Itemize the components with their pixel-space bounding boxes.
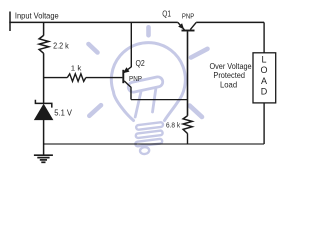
wire: 2.2k branch upper bbox=[43, 22, 45, 35]
label PNP (Q1) bbox=[182, 12, 194, 21]
label 6.8 k bbox=[166, 120, 180, 129]
wire: 1k to Q2 base bbox=[86, 77, 123, 79]
svg-text:6.8 k: 6.8 k bbox=[166, 120, 180, 129]
base tip bbox=[140, 147, 150, 155]
wire: 2.2k bottom to zener top bbox=[43, 53, 45, 103]
transistor Q2 (PNP) bbox=[123, 22, 131, 99]
label 5.1 V bbox=[54, 108, 72, 117]
label LOAD letters bbox=[260, 55, 267, 97]
svg-text:Over Voltage: Over Voltage bbox=[210, 62, 253, 71]
label 1 k bbox=[71, 64, 82, 73]
base bar 1 bbox=[136, 122, 163, 130]
transistor Q1 (PNP) bbox=[178, 22, 196, 115]
filament supports bbox=[135, 88, 156, 118]
ray bottom-left bbox=[89, 105, 101, 116]
base lead down bbox=[187, 31, 189, 115]
wire: 6.8k to bottom rail bbox=[187, 133, 189, 144]
svg-text:L: L bbox=[261, 55, 266, 65]
label Q2 bbox=[136, 58, 146, 68]
load box bbox=[253, 53, 276, 103]
label Q1 bbox=[162, 10, 171, 19]
label Input Voltage bbox=[15, 11, 59, 20]
collector lead bbox=[124, 81, 131, 100]
wire: load bottom bbox=[263, 103, 265, 144]
glass bbox=[111, 43, 185, 121]
svg-text:Load: Load bbox=[220, 81, 237, 90]
wire: Q2 collector to 6.8k node bbox=[131, 99, 188, 101]
svg-text:Protected: Protected bbox=[213, 71, 245, 80]
svg-text:Q1: Q1 bbox=[162, 10, 171, 19]
label PNP (Q2) bbox=[129, 74, 142, 83]
wire: top rail left (input to Q1 emitter) bbox=[9, 21, 178, 23]
ray bottom-right bbox=[190, 106, 203, 118]
filament box bbox=[127, 76, 163, 93]
ray top-left bbox=[89, 44, 98, 53]
wire: zener to bottom rail and ground bbox=[43, 120, 45, 155]
ray top bbox=[146, 27, 151, 35]
base bar bbox=[122, 70, 124, 83]
emitter arrow bbox=[124, 68, 129, 73]
ray top-right bbox=[191, 49, 208, 58]
wire: 1k branch left bbox=[44, 77, 68, 79]
svg-text:5.1 V: 5.1 V bbox=[54, 108, 72, 117]
base bar bbox=[182, 30, 195, 32]
wire: load top bbox=[263, 22, 265, 52]
wire: top rail right (Q1 collector to load corner) bbox=[196, 21, 264, 23]
emitter lead bbox=[178, 22, 185, 29]
base bar 3 bbox=[135, 139, 162, 147]
collector lead bbox=[190, 22, 196, 29]
resistor 1k bbox=[67, 74, 86, 82]
svg-text:Q2: Q2 bbox=[136, 58, 146, 68]
ground bbox=[34, 155, 53, 162]
svg-text:Input Voltage: Input Voltage bbox=[15, 11, 59, 20]
resistor 6.8k bbox=[183, 116, 192, 134]
svg-text:O: O bbox=[260, 65, 267, 75]
label 2.2 k bbox=[53, 42, 69, 51]
resistor 2.2k bbox=[39, 35, 49, 53]
svg-text:2.2 k: 2.2 k bbox=[53, 42, 69, 51]
watermark logo (light bulb) bbox=[89, 27, 208, 154]
base bar 2 bbox=[136, 130, 163, 138]
zener diode 5.1V bbox=[35, 100, 53, 120]
svg-text:PNP: PNP bbox=[182, 12, 194, 21]
svg-text:1 k: 1 k bbox=[71, 64, 82, 73]
svg-text:PNP: PNP bbox=[129, 74, 142, 83]
label Over Voltage Protected Load bbox=[210, 62, 253, 90]
emitter arrow bbox=[179, 24, 184, 29]
input terminal tick bbox=[9, 12, 11, 32]
svg-text:D: D bbox=[261, 87, 268, 97]
svg-text:A: A bbox=[261, 76, 267, 86]
wire: bottom rail bbox=[44, 143, 265, 145]
emitter lead bbox=[124, 22, 131, 72]
